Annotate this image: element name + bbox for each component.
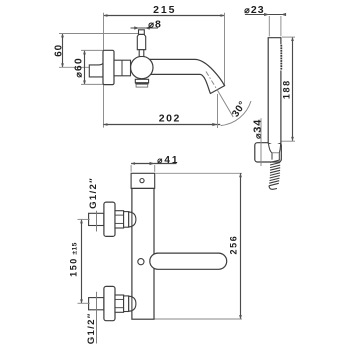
svg-text:⌀60: ⌀60 — [73, 57, 84, 78]
dimension dia8 handle stem — [131, 26, 159, 29]
extension line spout tip right (215) — [224, 13, 226, 86]
dimension dia60 wall plate — [84, 50, 86, 84]
dimension 60 height — [62, 34, 64, 68]
30 degree arc — [221, 101, 251, 126]
top supply pipe stub — [89, 213, 104, 225]
wall escutcheon plate (side view) — [103, 50, 114, 84]
extension line wall (left of 215/202) — [103, 13, 105, 128]
arrow dia41 right — [150, 162, 155, 165]
extension line 202 right — [217, 94, 219, 128]
top eccentric dome — [129, 212, 136, 227]
wand neck funnel left edge — [269, 144, 273, 160]
top escutcheon disc — [104, 202, 115, 236]
spout axis extension ray — [219, 92, 234, 117]
wand neck funnel right edge — [279, 144, 280, 160]
lever handle — [150, 253, 227, 269]
aerator tip — [136, 84, 148, 87]
bottom escutcheon disc — [104, 286, 115, 320]
svg-text:215: 215 — [153, 4, 176, 16]
wand neck funnel mask — [269, 144, 281, 160]
spout centerline (dash-dot) — [206, 72, 219, 93]
svg-text:⌀34: ⌀34 — [252, 119, 264, 139]
body edge over dome (bottom) — [131, 295, 133, 312]
svg-text:G1/2″: G1/2″ — [88, 177, 99, 209]
hose nipple joint line — [272, 152, 279, 154]
valve sphere body — [131, 56, 153, 78]
dimension dia41 mixer top — [131, 163, 176, 165]
extension 256 bottom — [155, 318, 243, 320]
handle grip — [137, 34, 145, 49]
svg-text:⌀8: ⌀8 — [148, 19, 162, 31]
dimension 188 handshower length — [292, 37, 294, 141]
dimension 150 between supplies — [81, 219, 83, 303]
aerator heavy edge — [135, 83, 148, 85]
bottom ring — [124, 296, 129, 312]
dia34 leader line — [260, 118, 262, 166]
svg-text:G1/2″: G1/2″ — [86, 312, 97, 344]
G1/2 leader bottom — [96, 292, 98, 344]
bottom nut facets — [115, 298, 124, 300]
top hex nut — [115, 211, 124, 228]
inlet elbow behind plate — [89, 63, 103, 77]
mixer cap — [131, 173, 155, 188]
G1/2 leader top — [96, 211, 98, 232]
bottom supply pipe stub — [89, 298, 104, 310]
svg-text:±15: ±15 — [71, 242, 78, 255]
hose coil — [269, 160, 280, 189]
svg-text:256: 256 — [228, 235, 238, 255]
body edge over dome (top) — [131, 211, 133, 228]
handle stem tip — [139, 30, 145, 35]
lever pivot screw — [138, 259, 144, 265]
svg-text:150: 150 — [69, 257, 79, 277]
svg-text:60: 60 — [53, 44, 64, 57]
svg-text:202: 202 — [159, 113, 181, 125]
extension 256 top — [156, 172, 243, 174]
bottom hex nut — [115, 295, 124, 312]
dimension dia23 handshower top — [245, 13, 286, 16]
svg-text:188: 188 — [281, 79, 291, 99]
tube joint line — [121, 60, 123, 76]
dimension 215 top — [104, 15, 225, 17]
cap bottom edge — [132, 188, 154, 190]
arrow 202 right — [212, 123, 217, 126]
top ring — [124, 212, 129, 228]
dimension 256 — [240, 173, 242, 319]
cap screw — [140, 179, 144, 183]
handle neck — [139, 50, 144, 57]
svg-text:⌀41: ⌀41 — [157, 155, 179, 166]
handshower wand — [268, 37, 281, 145]
spout — [150, 59, 225, 93]
dimension 202 bottom — [104, 124, 221, 126]
aerator ring — [135, 79, 148, 82]
spray dots — [280, 45, 282, 70]
top nut facets — [115, 214, 124, 216]
wand outline left/top/bottom — [268, 38, 281, 145]
wand right edge lower — [280, 71, 282, 144]
shower bracket holder — [255, 143, 281, 162]
svg-text:⌀23: ⌀23 — [244, 4, 264, 16]
wand right edge upper — [280, 37, 282, 44]
bottom eccentric dome — [129, 296, 136, 311]
mixer body — [132, 188, 154, 319]
body tube between plate and sphere — [114, 60, 131, 76]
extension lines dia23 — [268, 16, 270, 36]
